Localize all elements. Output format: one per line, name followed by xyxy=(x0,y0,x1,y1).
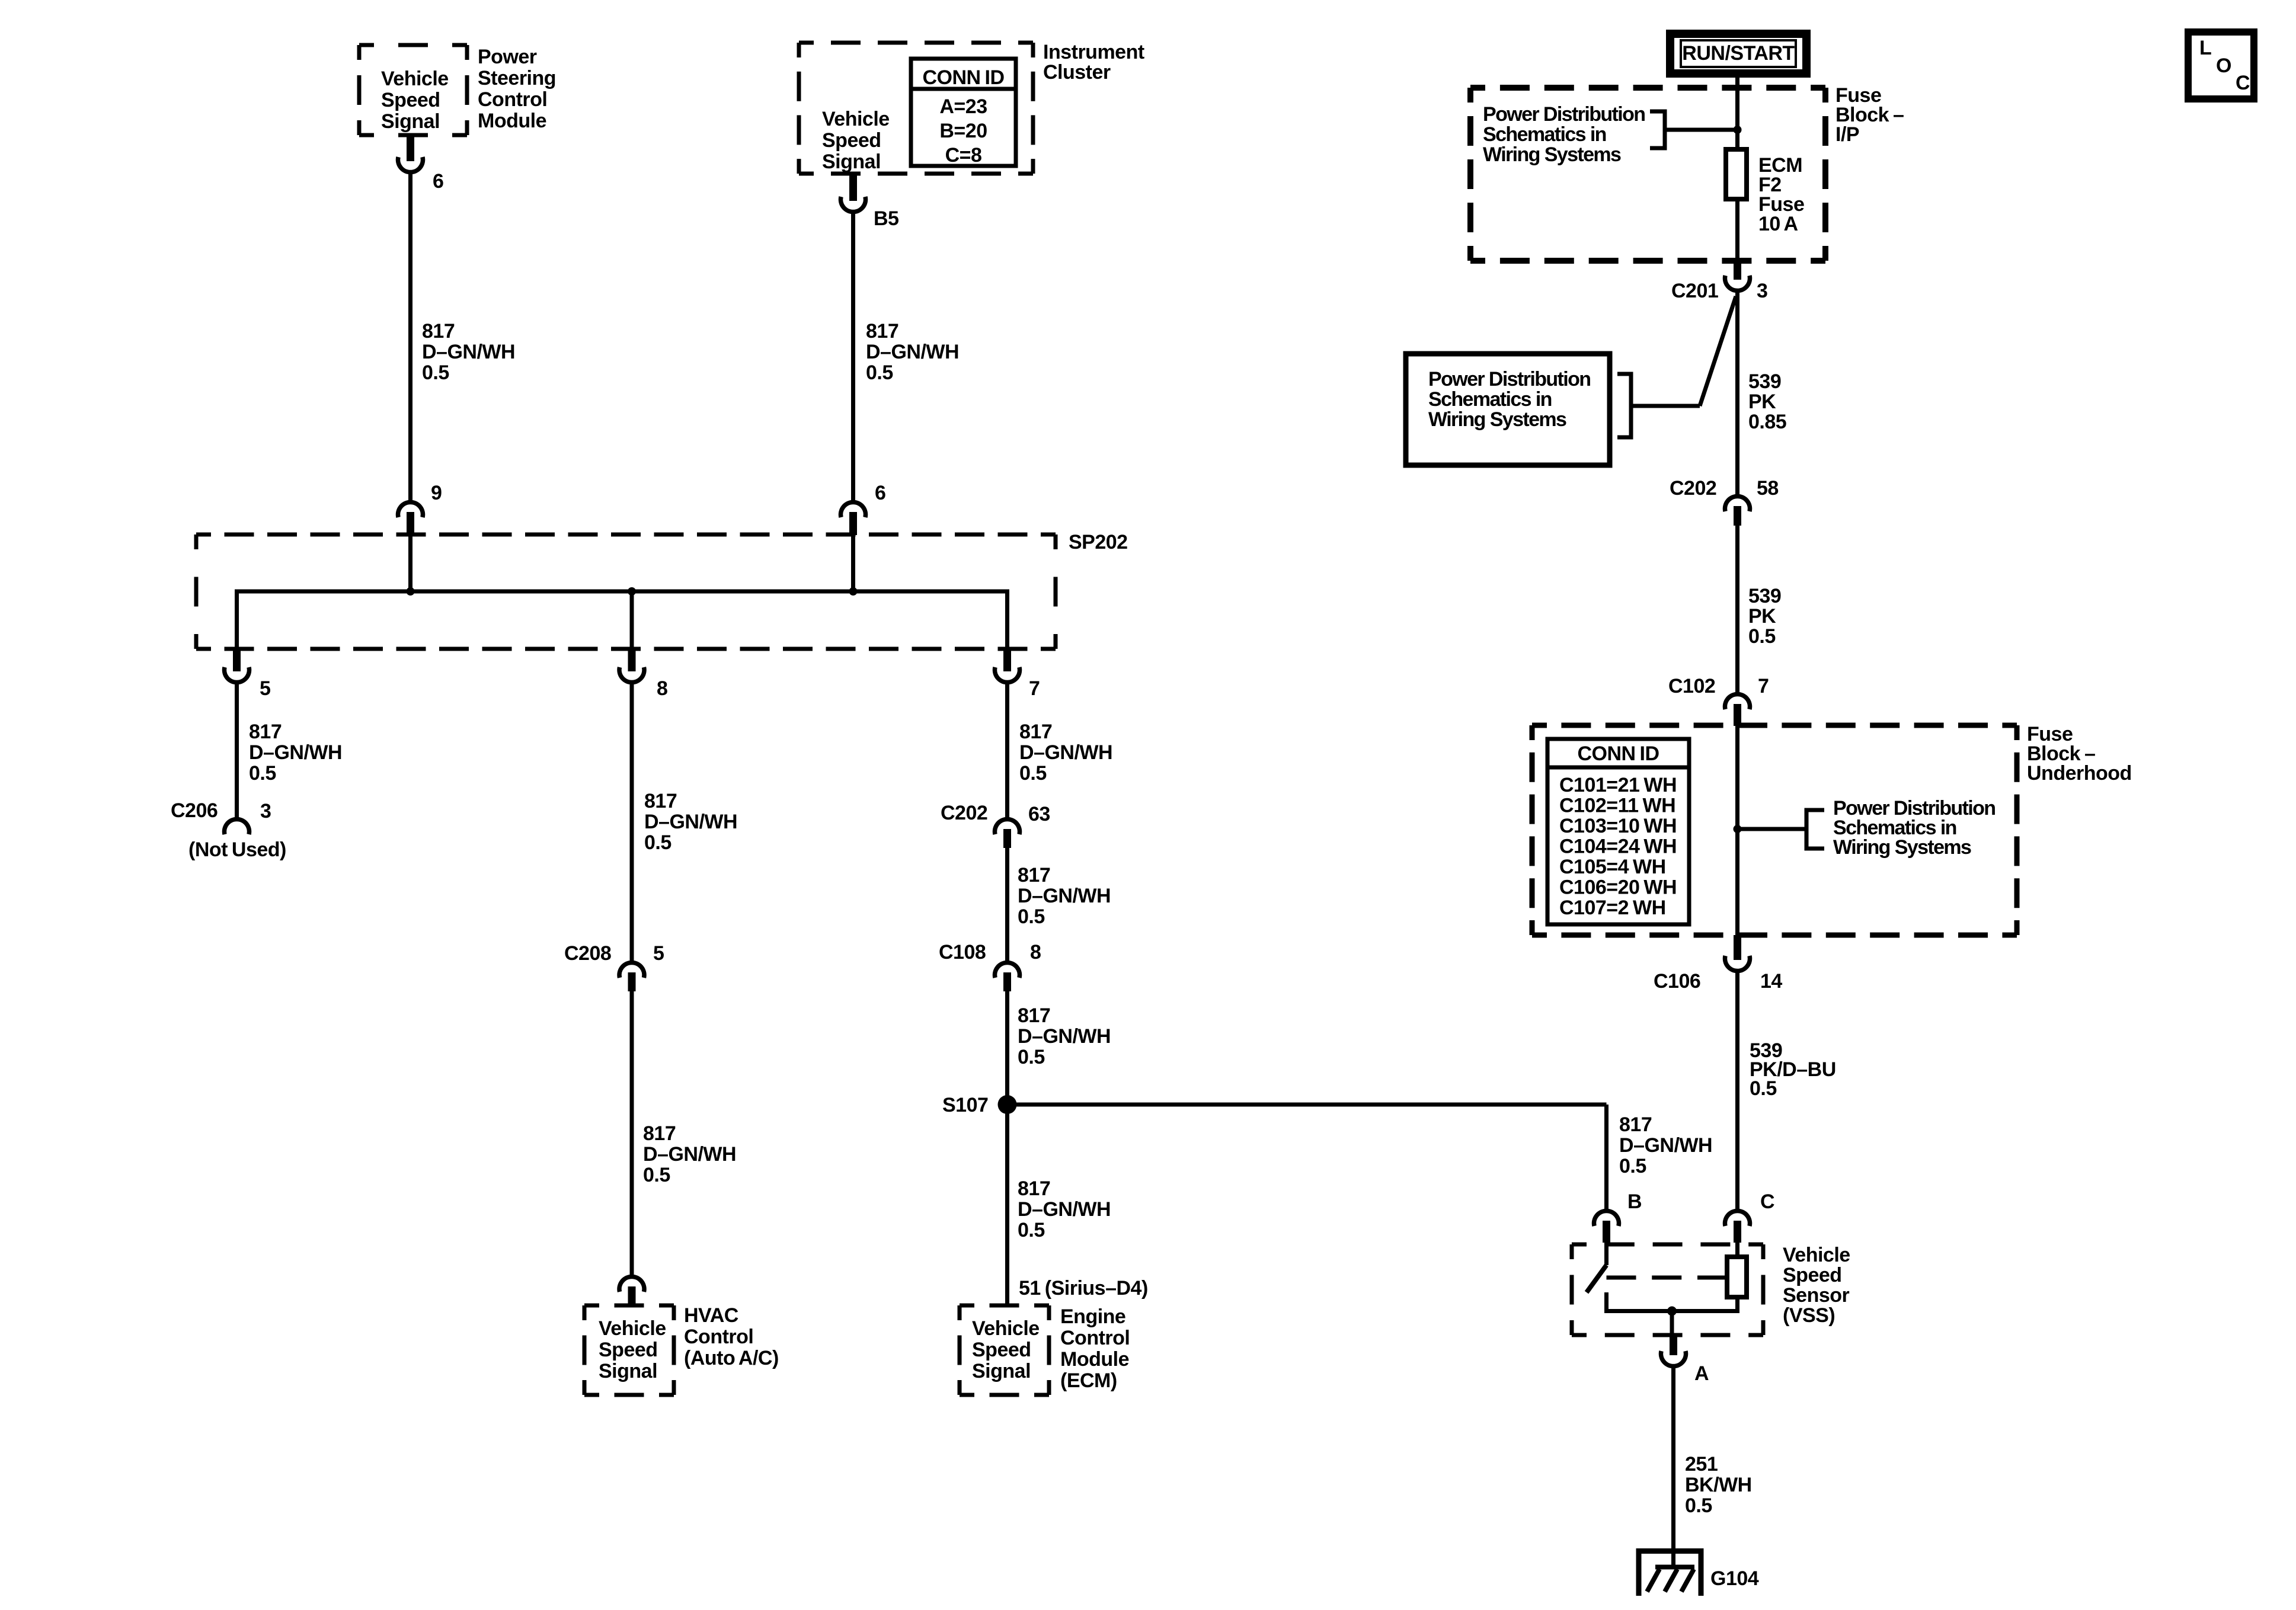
svg-text:A: A xyxy=(1694,1362,1709,1385)
svg-text:D–GN/WH: D–GN/WH xyxy=(644,811,737,833)
wire inside SP202 from connector 9 to bus xyxy=(408,533,412,591)
svg-text:C: C xyxy=(1760,1190,1774,1213)
svg-text:D–GN/WH: D–GN/WH xyxy=(1019,741,1112,764)
VSS switch fixed contact xyxy=(1604,1292,1609,1311)
RUN/START power feed box xyxy=(1670,34,1806,73)
svg-text:Vehicle: Vehicle xyxy=(599,1317,666,1340)
svg-text:Control: Control xyxy=(478,88,547,111)
wire inside SP202 from connector 6 to bus xyxy=(851,533,855,591)
VSS internal dashed actuator line xyxy=(1607,1276,1728,1280)
svg-text:Control: Control xyxy=(1060,1327,1130,1349)
wire from resistor to bottom rail xyxy=(1735,1297,1739,1311)
svg-text:Schematics in: Schematics in xyxy=(1428,388,1552,411)
in-line connector C208 pin 5 xyxy=(619,962,644,978)
svg-text:Steering: Steering xyxy=(478,67,556,89)
svg-text:C105=4 WH: C105=4 WH xyxy=(1559,856,1666,878)
svg-text:CONN ID: CONN ID xyxy=(1577,742,1659,765)
svg-text:63: 63 xyxy=(1028,803,1050,825)
wire from bus down to exit 8 xyxy=(630,591,634,651)
svg-text:Schematics in: Schematics in xyxy=(1483,123,1606,146)
svg-text:6: 6 xyxy=(875,482,885,504)
svg-text:C202: C202 xyxy=(941,802,987,824)
svg-text:G104: G104 xyxy=(1710,1567,1759,1590)
svg-text:10 A: 10 A xyxy=(1758,213,1798,235)
junction dot at underhood feed wire xyxy=(1734,825,1742,833)
wire 817 D-GN/WH from IC pin B5 down to SP202 xyxy=(851,212,855,501)
connector 9 into SP202 (from PSCM) xyxy=(398,502,423,517)
junction dot on bus at PSCM branch xyxy=(407,587,415,596)
connector 8 leaving SP202 xyxy=(628,649,636,671)
LOC reference box xyxy=(2188,32,2254,99)
connector A out of VSS xyxy=(1670,1333,1677,1355)
connector pin B5 of Instrument Cluster xyxy=(849,174,857,201)
svg-text:817: 817 xyxy=(422,320,455,343)
SP202 internal bus wire xyxy=(237,591,1008,651)
svg-text:D–GN/WH: D–GN/WH xyxy=(1018,1198,1111,1221)
splice S107 junction dot xyxy=(998,1095,1017,1114)
connector 5 leaving SP202 xyxy=(233,649,241,671)
svg-text:539: 539 xyxy=(1748,370,1781,393)
svg-text:539: 539 xyxy=(1748,585,1781,607)
svg-text:SP202: SP202 xyxy=(1069,531,1128,553)
svg-text:HVAC: HVAC xyxy=(684,1304,738,1327)
svg-text:A=23: A=23 xyxy=(939,95,987,118)
svg-text:D–GN/WH: D–GN/WH xyxy=(422,341,515,363)
svg-text:D–GN/WH: D–GN/WH xyxy=(249,741,342,764)
connector 7 leaving SP202 xyxy=(1003,649,1011,671)
svg-text:D–GN/WH: D–GN/WH xyxy=(1619,1134,1712,1157)
svg-text:Wiring Systems: Wiring Systems xyxy=(1833,836,1971,859)
wire down to VSS pin B xyxy=(1604,1105,1609,1210)
svg-text:RUN/START: RUN/START xyxy=(1682,42,1795,65)
svg-text:817: 817 xyxy=(1018,864,1050,886)
junction dot on VSS rail xyxy=(1667,1307,1677,1316)
svg-text:817: 817 xyxy=(643,1122,676,1145)
in-line connector C108 pin 8 xyxy=(994,962,1019,978)
svg-text:817: 817 xyxy=(249,721,282,743)
in-line connector C202 pin 58 xyxy=(1725,496,1750,511)
svg-text:Vehicle: Vehicle xyxy=(972,1317,1040,1340)
svg-text:817: 817 xyxy=(1619,1113,1652,1136)
svg-text:Signal: Signal xyxy=(822,151,881,173)
Engine Control Module box (dashed) xyxy=(960,1305,1049,1395)
svg-text:Vehicle: Vehicle xyxy=(381,68,449,90)
svg-text:0.5: 0.5 xyxy=(422,361,449,384)
svg-text:817: 817 xyxy=(1018,1177,1050,1200)
wire 251 BK/WH from pin A to G104 xyxy=(1671,1366,1675,1553)
Instrument Cluster box (dashed) xyxy=(799,43,1033,174)
wire 539 PK 0.5 from C202 to C102 xyxy=(1735,524,1739,693)
svg-text:0.5: 0.5 xyxy=(866,361,893,384)
junction dot at feed wire xyxy=(1734,126,1742,134)
wire 817 from SP202 pin 5 to C206 xyxy=(235,683,239,818)
svg-text:58: 58 xyxy=(1757,477,1779,500)
svg-text:0.5: 0.5 xyxy=(1685,1494,1712,1517)
svg-text:D–GN/WH: D–GN/WH xyxy=(866,341,959,363)
svg-text:Wiring Systems: Wiring Systems xyxy=(1428,408,1566,431)
svg-text:D–GN/WH: D–GN/WH xyxy=(1018,885,1111,907)
svg-text:BK/WH: BK/WH xyxy=(1685,1474,1752,1496)
svg-text:14: 14 xyxy=(1760,970,1782,993)
svg-text:(Auto A/C): (Auto A/C) xyxy=(684,1347,779,1369)
wire from feed wire to bracket xyxy=(1738,827,1807,831)
svg-text:B5: B5 xyxy=(874,207,898,230)
svg-text:(VSS): (VSS) xyxy=(1783,1304,1835,1327)
svg-text:Cluster: Cluster xyxy=(1043,61,1111,84)
bracket for Power Distribution box xyxy=(1617,374,1631,437)
CONN ID table of Instrument Cluster xyxy=(911,59,1016,167)
svg-text:817: 817 xyxy=(866,320,898,343)
connector 6 into SP202 (from IC) xyxy=(841,502,866,517)
connector C into VSS xyxy=(1725,1211,1750,1226)
splice SP202 box (dashed) xyxy=(196,534,1056,649)
svg-text:Power Distribution: Power Distribution xyxy=(1483,103,1645,126)
svg-text:Wiring Systems: Wiring Systems xyxy=(1483,143,1621,166)
svg-text:CONN ID: CONN ID xyxy=(922,66,1004,89)
svg-text:C206: C206 xyxy=(171,799,218,822)
svg-text:C=8: C=8 xyxy=(945,144,982,167)
svg-text:817: 817 xyxy=(1018,1004,1050,1027)
svg-text:PK: PK xyxy=(1748,391,1776,413)
svg-text:6: 6 xyxy=(433,170,443,193)
svg-text:C108: C108 xyxy=(939,941,986,964)
svg-text:B: B xyxy=(1627,1190,1642,1213)
in-line connector C102 pin 7 xyxy=(1725,694,1750,709)
svg-text:O: O xyxy=(2216,55,2231,77)
svg-text:8: 8 xyxy=(1030,941,1041,964)
svg-text:Module: Module xyxy=(478,110,546,132)
svg-text:Vehicle: Vehicle xyxy=(822,108,890,130)
HVAC Control box (dashed) xyxy=(584,1305,674,1395)
svg-text:8: 8 xyxy=(657,677,667,700)
Power Distribution Schematics box (solid) xyxy=(1406,354,1610,465)
bracket for Power Distribution note (underhood) xyxy=(1806,810,1824,849)
Vehicle Speed Sensor box (dashed) xyxy=(1572,1244,1763,1335)
svg-text:Speed: Speed xyxy=(381,89,440,111)
svg-text:7: 7 xyxy=(1029,677,1040,700)
wire through underhood fuse block xyxy=(1735,725,1739,937)
svg-text:Instrument: Instrument xyxy=(1043,41,1144,63)
svg-text:C107=2 WH: C107=2 WH xyxy=(1559,897,1666,919)
svg-text:0.5: 0.5 xyxy=(644,831,671,854)
svg-text:C201: C201 xyxy=(1671,280,1718,302)
connector pin 6 of PSCM xyxy=(407,135,414,161)
svg-text:PK: PK xyxy=(1748,605,1776,628)
svg-text:C: C xyxy=(2236,72,2250,94)
svg-text:C202: C202 xyxy=(1670,477,1716,500)
svg-text:C103=10 WH: C103=10 WH xyxy=(1559,815,1677,837)
wire from S107 to VSS pin B branch xyxy=(1008,1103,1607,1107)
svg-text:Vehicle: Vehicle xyxy=(1783,1244,1850,1266)
wire from C108 down to ECM xyxy=(1005,990,1009,1305)
svg-text:0.5: 0.5 xyxy=(1018,1046,1045,1068)
connector into HVAC Control xyxy=(619,1276,644,1292)
wire from bracket to feed wire xyxy=(1665,128,1738,132)
svg-text:C106=20 WH: C106=20 WH xyxy=(1559,876,1677,899)
wire from rail to pin A xyxy=(1670,1311,1674,1334)
Power Steering Control Module box (dashed) xyxy=(359,45,467,135)
svg-text:Power Distribution: Power Distribution xyxy=(1428,368,1590,391)
wire 539 PK 0.85 from C201 to C202 xyxy=(1735,291,1739,495)
wire from C208 down to HVAC xyxy=(630,990,634,1275)
fuse ECM F2 10A symbol xyxy=(1726,149,1747,199)
bracket for Power Distribution note (I/P) xyxy=(1650,111,1665,148)
svg-text:51 (Sirius–D4): 51 (Sirius–D4) xyxy=(1019,1277,1148,1299)
svg-text:0.5: 0.5 xyxy=(1619,1155,1646,1177)
diagonal wire to C201 xyxy=(1700,296,1736,406)
svg-text:B=20: B=20 xyxy=(939,120,987,142)
svg-text:C102: C102 xyxy=(1668,675,1715,697)
svg-text:Signal: Signal xyxy=(381,110,440,133)
ground symbol G104 xyxy=(1636,1548,1703,1596)
svg-text:0.85: 0.85 xyxy=(1748,411,1786,433)
svg-text:9: 9 xyxy=(431,482,442,504)
svg-text:Speed: Speed xyxy=(1783,1264,1842,1286)
svg-text:C208: C208 xyxy=(564,942,611,965)
svg-text:Control: Control xyxy=(684,1326,753,1348)
svg-text:0.5: 0.5 xyxy=(1018,905,1045,928)
svg-text:0.5: 0.5 xyxy=(1750,1077,1777,1100)
svg-text:Power: Power xyxy=(478,46,537,68)
wire 817 from SP202 pin 8 to C208 xyxy=(630,683,634,961)
svg-text:Speed: Speed xyxy=(822,129,881,152)
svg-text:0.5: 0.5 xyxy=(1748,625,1776,648)
svg-text:0.5: 0.5 xyxy=(643,1164,670,1186)
wire 539 PK/D-BU to VSS pin C xyxy=(1735,971,1739,1210)
VSS bottom rail wire xyxy=(1604,1309,1739,1313)
svg-text:L: L xyxy=(2199,37,2211,59)
svg-text:3: 3 xyxy=(260,800,271,822)
svg-text:0.5: 0.5 xyxy=(249,762,276,785)
junction dot on bus at middle branch xyxy=(628,587,636,596)
svg-text:Module: Module xyxy=(1060,1348,1129,1371)
connector C106 pin 14 xyxy=(1734,935,1741,960)
svg-text:C106: C106 xyxy=(1654,970,1700,993)
svg-text:S107: S107 xyxy=(942,1094,988,1116)
svg-text:3: 3 xyxy=(1757,280,1767,302)
wire from RUN/START to fuse xyxy=(1735,73,1739,149)
svg-text:D–GN/WH: D–GN/WH xyxy=(1018,1025,1111,1048)
svg-text:Signal: Signal xyxy=(972,1360,1031,1382)
in-line connector C202 pin 63 xyxy=(994,819,1019,834)
svg-text:C101=21 WH: C101=21 WH xyxy=(1559,774,1677,796)
svg-text:0.5: 0.5 xyxy=(1018,1219,1045,1241)
svg-text:Signal: Signal xyxy=(599,1360,657,1382)
wire 817 D-GN/WH from PSCM pin 6 down to SP202 xyxy=(408,172,412,501)
wire from pin C to resistor xyxy=(1735,1241,1739,1257)
svg-text:Underhood: Underhood xyxy=(2027,762,2132,785)
svg-text:7: 7 xyxy=(1758,675,1769,697)
junction dot on bus at IC branch xyxy=(849,587,858,596)
VSS internal resistor xyxy=(1727,1257,1747,1297)
wire from bracket toward C201 xyxy=(1631,404,1700,408)
connector B into VSS xyxy=(1594,1211,1619,1226)
wire 817 from SP202 pin 7 to C202 xyxy=(1005,683,1009,818)
svg-text:Sensor: Sensor xyxy=(1783,1284,1850,1307)
svg-text:251: 251 xyxy=(1685,1453,1718,1475)
svg-text:817: 817 xyxy=(1019,721,1052,743)
svg-text:817: 817 xyxy=(644,790,677,812)
svg-text:(Not Used): (Not Used) xyxy=(188,838,286,861)
connector C201 pin 3 xyxy=(1734,261,1741,280)
svg-text:Speed: Speed xyxy=(599,1339,658,1361)
svg-text:0.5: 0.5 xyxy=(1019,762,1047,785)
svg-text:C104=24 WH: C104=24 WH xyxy=(1559,836,1677,858)
svg-text:(ECM): (ECM) xyxy=(1060,1369,1117,1392)
svg-text:Speed: Speed xyxy=(972,1339,1031,1361)
wire from C202-63 to C108 xyxy=(1005,847,1009,961)
connector C206 terminal 3 (not used) xyxy=(225,819,250,834)
svg-text:C102=11 WH: C102=11 WH xyxy=(1559,795,1675,817)
Fuse Block - Underhood box (dashed) xyxy=(1532,725,2017,935)
svg-text:5: 5 xyxy=(653,942,664,965)
svg-text:Engine: Engine xyxy=(1060,1305,1125,1328)
CONN ID table of Fuse Block Underhood xyxy=(1547,739,1689,924)
svg-text:D–GN/WH: D–GN/WH xyxy=(643,1143,736,1166)
svg-text:I/P: I/P xyxy=(1835,123,1859,146)
VSS switch blade (speed signal contact) xyxy=(1604,1243,1609,1265)
wire from fuse to C201 xyxy=(1735,199,1739,263)
Fuse Block - I/P box (dashed) xyxy=(1470,88,1825,261)
svg-text:5: 5 xyxy=(260,677,270,700)
